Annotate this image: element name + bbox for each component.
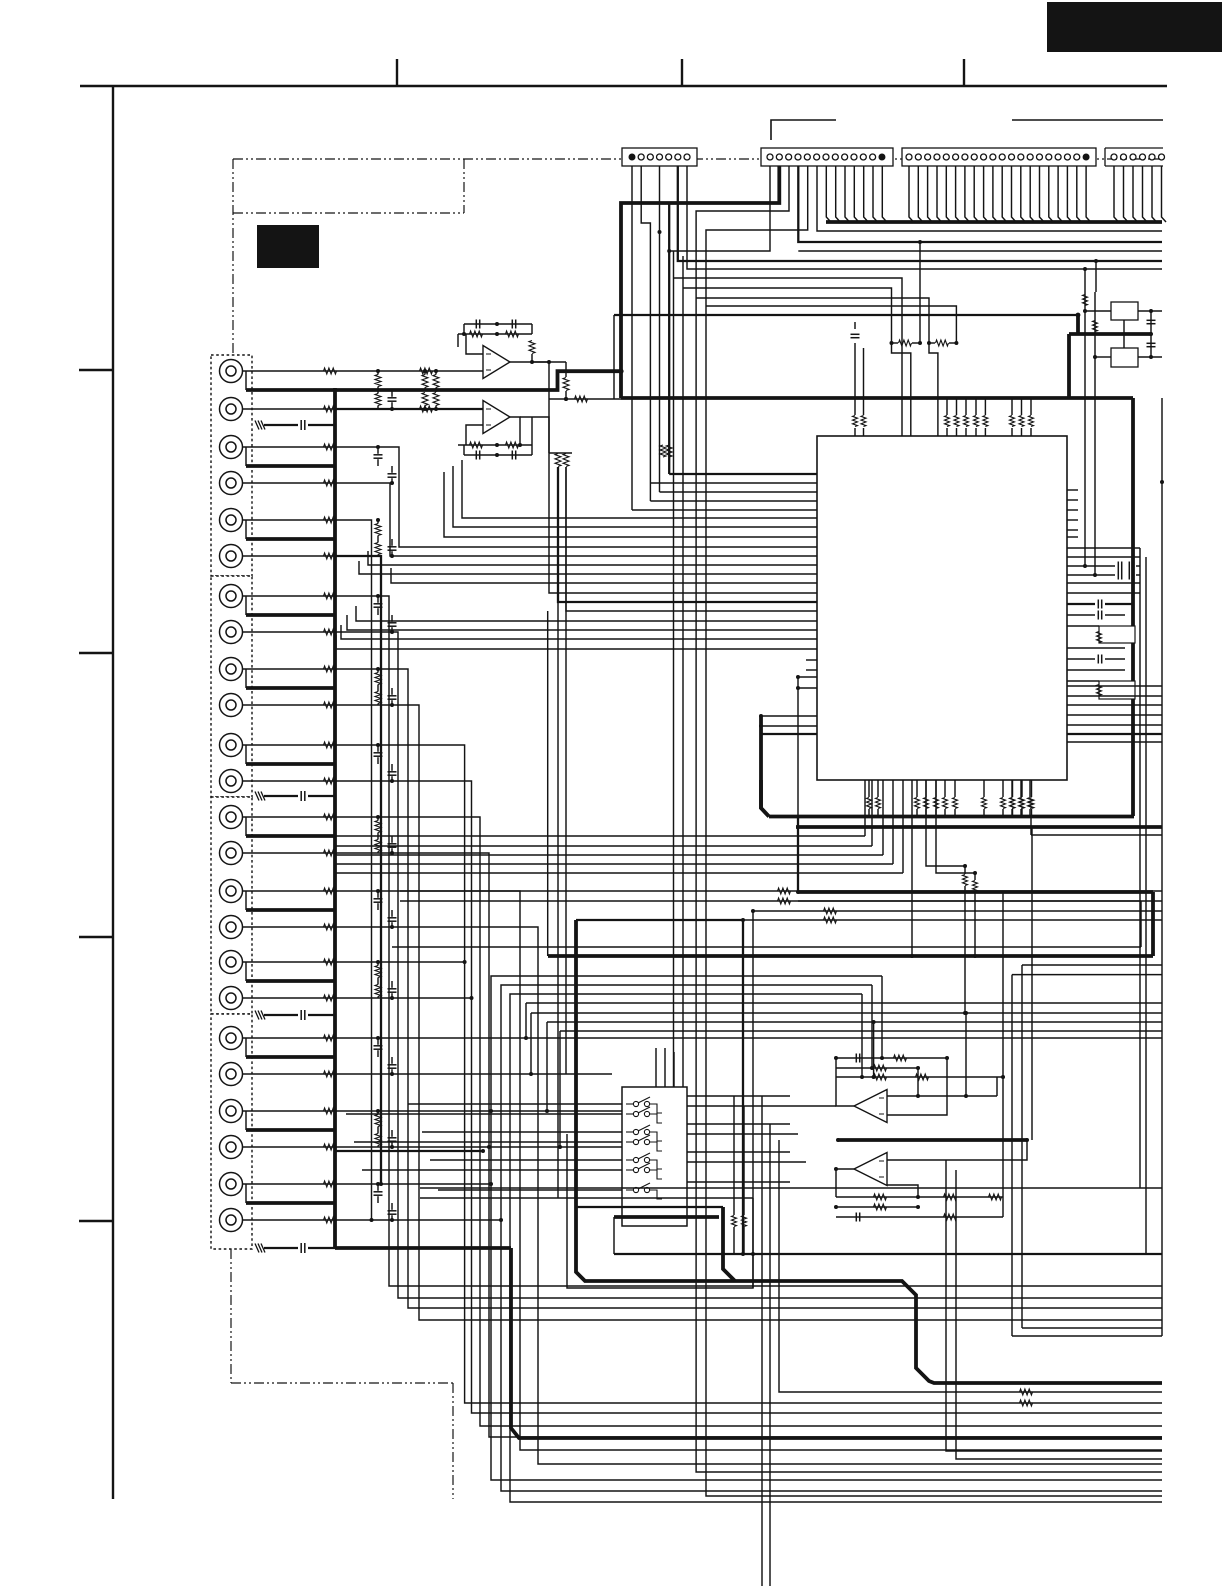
junction dot xyxy=(376,445,380,449)
IC bottom pin x926 xyxy=(925,780,927,797)
IC top pin x1012 + resistor xyxy=(1011,428,1013,436)
wire jack shield riser xyxy=(245,1111,247,1130)
board boundary left vertical xyxy=(232,159,234,355)
wire CN4 pin3 to bus222 xyxy=(1133,166,1138,222)
thick net y1254 xyxy=(614,1253,1162,1255)
resistor drop x975 xyxy=(974,873,976,880)
wire CN3 pin7 to bus222 xyxy=(965,166,970,222)
resistor pair to shield xyxy=(375,821,381,833)
connector CN4 (clipped at page edge) xyxy=(1105,147,1163,149)
IC right pin y670 xyxy=(1067,669,1125,671)
net y288 to IC top xyxy=(683,288,892,343)
RCA jack J3 xyxy=(220,436,243,459)
IC top pin x1021.5 + resistor xyxy=(1021,428,1023,436)
wire IC pins y677/688 to riser x798 xyxy=(798,676,817,678)
wire jack y1111 xyxy=(335,1110,622,1112)
IC top pin x947 + resistor xyxy=(946,428,948,436)
IC right loop y681-699 xyxy=(1067,680,1099,682)
op-amp U20 xyxy=(854,1090,887,1123)
junction dot xyxy=(376,1182,380,1186)
IC pin x936 bend right xyxy=(936,780,975,873)
thick vertical x743 xyxy=(742,920,744,1254)
RCA jack J8 xyxy=(220,621,243,644)
wire CN3 pin9 to bus222 xyxy=(984,166,989,222)
net IC-right y686 to edge xyxy=(1067,685,1162,687)
resistor link row y343 b xyxy=(936,340,949,346)
U2 feedback row upper xyxy=(458,444,532,446)
wire bundle medium from thick net xyxy=(668,203,670,474)
wire jack shield riser xyxy=(245,520,247,539)
cap pair to shield xyxy=(374,898,383,900)
IC bottom pin x869 xyxy=(868,780,870,797)
wire bundle long down a xyxy=(673,251,675,1087)
wire CN2 pin8 to bus222 xyxy=(836,166,841,222)
net y1207 xyxy=(576,1206,723,1208)
wire jack J24 signal xyxy=(243,1219,336,1221)
jack group box 2 xyxy=(211,576,252,797)
resistor pair to shield xyxy=(375,966,381,978)
wire into switch y1160 xyxy=(430,1159,622,1161)
IC pin line y510 xyxy=(632,509,817,511)
U2 feedback row lower xyxy=(464,454,532,456)
thick net y315 xyxy=(614,314,1078,316)
wire CN2 pin10 to bus222 xyxy=(854,166,859,222)
crop tick left 3 xyxy=(79,936,113,938)
stair right x1012 xyxy=(1012,974,1162,976)
thick net y956 xyxy=(548,954,1153,958)
IC right pin y583 xyxy=(1067,582,1140,584)
RCA jack J22 xyxy=(220,1136,243,1159)
wire jack y1220 xyxy=(335,1219,501,1221)
wire jack y781 via x471 to bottom y1413 xyxy=(335,781,1162,1413)
net IC-right y705 to edge xyxy=(1067,704,1162,706)
wire CN2 pin11 to bus222 xyxy=(864,166,869,222)
IC bottom pin x955 xyxy=(954,780,956,797)
net corner x560 y1031 xyxy=(560,1030,1162,1032)
wire CN3 pin5 to bus222 xyxy=(946,166,951,222)
resistor on y1403 xyxy=(1020,1400,1033,1406)
wire CN3 pin12 to bus222 xyxy=(1012,166,1017,222)
net corner x501 y985 xyxy=(501,985,1162,1491)
U20 feedback right xyxy=(887,1068,918,1096)
vertical resistor pair at x436 xyxy=(433,375,439,388)
stair right x1022 xyxy=(1022,964,1162,966)
wire out of switch y1124 xyxy=(687,1123,790,1125)
IC right pin y548 xyxy=(1067,547,1140,549)
U1 feedback row lower xyxy=(458,333,532,335)
junction dot xyxy=(376,518,380,522)
net y947 xyxy=(392,946,1141,948)
RCA jack J18 xyxy=(220,987,243,1010)
wire CN4 pin5 to bus222 xyxy=(1152,166,1157,222)
resonator X2 box xyxy=(1111,348,1138,367)
wire jack y962 to junction xyxy=(335,961,465,963)
wire CN3 pin20 to bus222 xyxy=(1086,166,1091,222)
wire jack shield riser xyxy=(245,962,247,981)
IC pin line y501 xyxy=(650,500,817,502)
wire CN3 pin11 to bus222 xyxy=(1002,166,1007,222)
page border left xyxy=(112,86,114,1499)
IC top pin x855 + resistor xyxy=(854,428,856,436)
U1 -in stub xyxy=(466,334,483,354)
wire into switch y1142 xyxy=(354,1141,622,1143)
IC bottom pin x878 xyxy=(877,780,879,797)
net below U21 y1217 xyxy=(836,1216,1003,1218)
thin vertical x548 xyxy=(547,611,549,956)
IC right pin y575 with caps xyxy=(1067,574,1115,576)
wire jack J13 signal xyxy=(243,816,336,818)
crop tick top 2 xyxy=(681,59,683,86)
net y836 xyxy=(335,835,865,837)
cap pair to shield xyxy=(374,454,383,456)
net above U20 y1068 xyxy=(836,1067,918,1069)
thick shield line to bus xyxy=(246,537,335,541)
thick net y1140 xyxy=(838,1138,1027,1142)
net IC-right y696 to edge xyxy=(1067,695,1162,697)
wire jack J20 signal xyxy=(243,1073,336,1075)
thick shield line to bus xyxy=(246,1201,335,1205)
IC right pin y604 (grey) with cap xyxy=(1067,603,1095,605)
thick shield line to bus xyxy=(246,388,335,392)
thick shield line to bus xyxy=(246,1128,335,1132)
net y873 xyxy=(335,872,903,874)
wire jack y596 via x389 to bottom y1286 xyxy=(335,596,1162,1286)
IC bottom pin x1012 xyxy=(1011,780,1013,797)
vertical x966 to opamp xyxy=(965,1013,967,1096)
thick net CN2 pin2 to main bus xyxy=(621,166,779,398)
U2 -in stub xyxy=(466,425,483,445)
IC pin line y630 xyxy=(347,615,817,630)
wire out of switch y1182 xyxy=(687,1181,790,1183)
IC pin x912 long drop xyxy=(911,780,913,956)
crop tick left 2 xyxy=(79,652,113,654)
IC pin line y518 xyxy=(462,460,817,518)
vertical resistor wires x734 x744 xyxy=(733,1096,735,1140)
wire jack shield riser xyxy=(245,669,247,688)
U20 +in wire xyxy=(887,1058,947,1115)
wire CN3 pin3 to bus222 xyxy=(928,166,933,222)
IC right stub y490 xyxy=(1067,489,1078,491)
wire out of switch y1106 xyxy=(687,1105,836,1107)
wire jack shield riser xyxy=(245,371,247,390)
resistor pair to shield xyxy=(375,1115,381,1127)
IC right pin y615 with cap xyxy=(1067,614,1095,616)
wire jack shield riser xyxy=(245,1038,247,1057)
RCA jack J9 xyxy=(220,658,243,681)
wire jack J14 signal xyxy=(243,852,336,854)
net IC-right y734 to edge xyxy=(1067,733,1162,735)
junction dot xyxy=(658,230,662,234)
vertical x1162 long xyxy=(1161,398,1163,1336)
wire CN3 pin2 to bus222 xyxy=(918,166,923,222)
switch S5 xyxy=(626,1159,633,1161)
wire jack J4 signal xyxy=(243,482,336,484)
RCA jack J17 xyxy=(220,951,243,974)
junction dot xyxy=(376,594,380,598)
wire CN2 pin6 bend right xyxy=(817,166,1162,231)
wire CN1 pin6 bend right xyxy=(678,166,1162,261)
thick bus chamfer xyxy=(761,780,769,817)
wire into switch y1104 xyxy=(408,1103,622,1105)
net above U20 y1077 xyxy=(836,1076,1003,1078)
thick bus y222 xyxy=(826,220,1162,224)
wire CN3 pin1 to bus222 xyxy=(909,166,914,222)
wire x956 bottom xyxy=(956,1170,1162,1459)
net corner x526 y1003 xyxy=(526,1002,1162,1004)
U20 out net right xyxy=(918,1095,997,1097)
RCA jack J5 xyxy=(220,509,243,532)
net IC-right y725 to edge xyxy=(1067,724,1162,726)
thin C path xyxy=(567,1134,753,1288)
IC pin line y574 xyxy=(359,561,817,574)
U1 feedback row upper xyxy=(464,323,532,325)
resistor pair to shield xyxy=(375,375,381,387)
op-amp U21 xyxy=(854,1153,887,1186)
cap pair to shield xyxy=(374,1045,383,1047)
IC right loop y626-643 xyxy=(1067,625,1099,627)
wire CN2 pin9 to bus222 xyxy=(845,166,850,222)
connector CN1 xyxy=(622,148,697,166)
cap pair to shield xyxy=(374,603,383,605)
switch S7 xyxy=(626,1189,633,1191)
wire CN2 pin12 to bus222 xyxy=(873,166,878,222)
net y901 with resistor xyxy=(400,900,1162,902)
net y298 to IC top xyxy=(696,298,929,343)
U2 output net right xyxy=(520,417,549,453)
IC bottom-right pin x1022 xyxy=(1021,780,1023,797)
wire x946 bottom xyxy=(946,1160,1162,1451)
thick shield line to bus xyxy=(246,464,335,468)
IC right pin y593 xyxy=(1067,592,1140,594)
wire jack y1184 xyxy=(335,1183,491,1185)
wire jack y1038 xyxy=(335,1037,1162,1039)
wire CN3 pin17 to bus222 xyxy=(1058,166,1063,222)
thick link x1078 xyxy=(1076,315,1080,334)
junction dot xyxy=(667,249,671,253)
net corner x531 y1013 xyxy=(531,1012,1162,1014)
wire CN2 pin3 jog long down xyxy=(696,166,1162,1472)
thick shield line to bus xyxy=(246,834,335,838)
net above U20 y1058 xyxy=(836,1057,947,1059)
vertical x1003 segment xyxy=(1002,892,1004,1217)
title block bar xyxy=(1047,2,1222,52)
op-amp U2 xyxy=(483,401,510,434)
thick shield line to bus xyxy=(246,979,335,983)
vertical net x1095 down xyxy=(1094,292,1096,575)
U1 output to net xyxy=(532,361,566,363)
U21 feedback xyxy=(887,1185,918,1197)
thick shield line to bus xyxy=(246,686,335,690)
thick elbow x1069 xyxy=(1067,334,1071,398)
wire CN1 pin2 down jog (bundle) xyxy=(641,166,650,501)
net y278 to IC top xyxy=(674,278,903,436)
thick ground stub y1248 xyxy=(335,1246,511,1250)
U2 output riser xyxy=(531,417,533,445)
wire CN3 pin15 to bus222 xyxy=(1040,166,1045,222)
wire x744 resistor xyxy=(743,1106,745,1215)
wire net y251 right xyxy=(798,250,1162,252)
RCA jack J2 xyxy=(220,398,243,421)
board boundary bottom-right vertical xyxy=(452,1383,454,1499)
thick link x1153 xyxy=(1151,892,1155,956)
chassis ground + coupling cap row xyxy=(261,1011,265,1020)
net below U21 y1207 xyxy=(836,1206,918,1208)
thick net x577 to bottom bus xyxy=(576,920,1162,1383)
wire CN4 pin1 to bus222 xyxy=(1114,166,1119,222)
IC pin x872 drop xyxy=(871,780,873,846)
wire CN1 pin1 down (bundle) xyxy=(631,166,633,510)
wire jack y483 to IC pin y556 xyxy=(335,483,817,556)
IC pin x883 drop xyxy=(882,780,884,855)
wire CN3 pin8 to bus222 xyxy=(974,166,979,222)
RCA jack J6 xyxy=(220,545,243,568)
wire jack shield riser xyxy=(245,745,247,764)
thick stub y1151 xyxy=(335,1150,483,1152)
IC pin x926 bend right xyxy=(926,780,965,866)
thick main bus y398 right xyxy=(621,396,1133,400)
chassis ground + coupling cap row xyxy=(261,1244,265,1253)
wire jack J8 signal xyxy=(243,631,336,633)
net corner x510 y994 xyxy=(510,994,1162,1502)
vertical x1032 down xyxy=(1031,827,1033,1140)
wire into switch y1114 xyxy=(346,1113,622,1115)
switch S2 xyxy=(626,1113,633,1115)
switch S1 xyxy=(626,1103,633,1105)
RCA jack J21 xyxy=(220,1100,243,1123)
wire jack y705 via x419 to bottom y1320 xyxy=(335,705,1162,1320)
wire IC pins y716/726/734 to thick riser x761 xyxy=(761,715,817,717)
wire jack y891 via x520 to bottom y1450 xyxy=(335,891,1162,1450)
net y891 with resistor xyxy=(400,890,1162,892)
board boundary top dash-dot xyxy=(233,158,1163,160)
wire jack shield riser xyxy=(245,1184,247,1203)
IC top pin x1031 + resistor xyxy=(1030,428,1032,436)
wire out of switch y1096 xyxy=(687,1095,790,1097)
IC pin x865 drop xyxy=(864,780,866,836)
RCA jack J19 xyxy=(220,1027,243,1050)
wire jack y927 via x538 to bottom y1464 xyxy=(335,927,1162,1464)
wire net to IC pin y593 xyxy=(549,399,817,593)
net y1198 xyxy=(420,1197,753,1199)
wire jack J16 signal xyxy=(243,926,336,928)
IC bottom pin x1021 xyxy=(1020,780,1022,797)
RCA jack J13 xyxy=(220,806,243,829)
net below U21 y1197 xyxy=(836,1196,1003,1198)
thick riser x761 to bottom bus xyxy=(761,716,769,817)
thick shield line to bus xyxy=(246,908,335,912)
switch S3 xyxy=(626,1131,633,1133)
thick seg y920 + net xyxy=(576,919,743,921)
wire jack shield riser xyxy=(245,891,247,910)
jack group box 4 xyxy=(211,1014,252,1249)
switch S4 xyxy=(626,1141,633,1143)
wire jack J3 signal xyxy=(243,446,336,448)
net y846 xyxy=(335,845,872,847)
wire CN2 pin13 to bus222 xyxy=(882,166,887,222)
U2 output wire xyxy=(510,417,520,445)
thick shield line to bus xyxy=(246,1055,335,1059)
wire CN4 pin6 to bus222 xyxy=(1162,166,1167,222)
IC right stub y537 xyxy=(1067,536,1078,538)
IC bottom-right pin x1031 xyxy=(1031,780,1033,797)
wire CN2 pin4 bend right xyxy=(798,166,1162,242)
junction dot thick xyxy=(618,369,623,374)
wire jack J2 signal xyxy=(243,408,336,410)
label underline top right xyxy=(1012,119,1163,121)
IC bottom pin x984 xyxy=(983,780,985,797)
thick loop right vertical xyxy=(723,1207,735,1281)
switch block top feed verticals xyxy=(655,1048,657,1087)
wire y461 down xyxy=(557,467,559,1198)
resistor link row y343 a xyxy=(899,340,912,346)
RCA jack J15 xyxy=(220,880,243,903)
vertical x1141 xyxy=(1140,901,1142,947)
wire jack J15 signal xyxy=(243,890,336,892)
IC bottom pin x936 xyxy=(935,780,937,797)
thick riser x798 segment xyxy=(797,816,799,892)
crystal right wires xyxy=(1138,310,1162,312)
IC top pin riser x855 xyxy=(854,343,856,398)
wire into switch y1132 xyxy=(422,1131,622,1133)
junction dot xyxy=(376,815,380,819)
IC top pin x976 + resistor xyxy=(975,428,977,436)
vertical x614 xyxy=(613,1217,615,1254)
board boundary sub-box bottom xyxy=(233,212,464,214)
IC right pin y566 with caps xyxy=(1067,565,1115,567)
page border top xyxy=(80,85,1167,87)
wire CN3 pin10 to bus222 xyxy=(993,166,998,222)
net y835 xyxy=(1031,834,1162,836)
wire CN3 pin13 to bus222 xyxy=(1021,166,1026,222)
wire jack J5 signal xyxy=(243,519,336,521)
op-amp U1 xyxy=(483,346,510,379)
wire net to IC pin y602 (medium) xyxy=(558,467,817,602)
IC bottom-right pin x1003 xyxy=(1002,780,1004,797)
vertical resistor pair at x425 xyxy=(422,375,428,388)
U2 feedback legs xyxy=(463,445,465,455)
U1 feedback left leg xyxy=(463,324,465,334)
wire CN4 pin4 to bus222 xyxy=(1143,166,1148,222)
IC pin line y639 xyxy=(341,625,817,639)
jack group box 3 xyxy=(211,797,252,1014)
wire jack J22 signal xyxy=(243,1146,336,1148)
wire jack y745 via x464 to bottom y1403 xyxy=(335,745,1162,1403)
IC right stub y500 xyxy=(1067,499,1078,501)
IC pin x903 drop xyxy=(902,780,904,873)
wire CN3 pin4 to bus222 xyxy=(937,166,942,222)
IC pin x893 drop xyxy=(892,780,894,864)
IC pin line y492 xyxy=(660,491,818,493)
crop tick left 4 xyxy=(79,1220,113,1222)
net IC-right y742 to edge xyxy=(1067,741,1162,743)
vertical x1146 xyxy=(1145,557,1147,1254)
U21 output xyxy=(836,1169,854,1197)
wire jack J11 signal xyxy=(243,744,336,746)
junction dot xyxy=(376,369,380,373)
switch S6 xyxy=(626,1169,633,1171)
thick inner y1217 xyxy=(614,1215,719,1219)
jog into IC top b xyxy=(929,343,938,436)
IC right stub y520 xyxy=(1067,519,1078,521)
U1 output wire xyxy=(510,362,549,399)
IC right stub y510 xyxy=(1067,509,1078,511)
IC pin stub y660 xyxy=(806,659,817,661)
wire out of switch y1152 xyxy=(687,1151,790,1153)
thick bus y816 main xyxy=(769,815,1134,819)
wire jack y1147 xyxy=(335,1146,622,1148)
wire net to IC pin y611 xyxy=(566,467,817,611)
thick main bus vertical x1133 xyxy=(1131,398,1135,816)
